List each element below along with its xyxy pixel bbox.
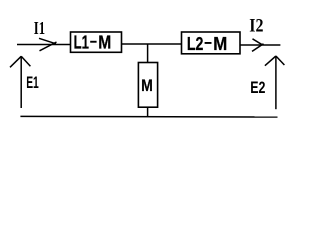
wire: between L1-M and L2-M (122, 43, 182, 45)
svg-text:I2: I2 (249, 15, 263, 36)
svg-text:M: M (213, 34, 227, 54)
svg-text:L2: L2 (187, 34, 204, 54)
svg-text:E2: E2 (250, 78, 265, 97)
wire: right lead out of L2-M (240, 44, 280, 46)
svg-text:M: M (98, 32, 111, 52)
node: E1 voltage arrow (up) (10, 56, 30, 108)
svg-text:I1: I1 (34, 18, 45, 38)
node: E2 voltage arrow (up) (265, 56, 285, 109)
node: I2 current arrowhead on right lead (252, 39, 264, 52)
wire: junction drop to M (147, 44, 149, 63)
node: I1 current arrowhead on left lead (39, 38, 57, 51)
svg-text:E1: E1 (26, 73, 39, 92)
wire: bottom rail (20, 115, 277, 118)
svg-text:L1: L1 (74, 32, 89, 52)
svg-text:M: M (141, 76, 153, 95)
inductor M (box) (138, 63, 157, 108)
inductor L2-M (box) (182, 32, 241, 54)
inductor L1-M (box) (71, 32, 122, 52)
wire: M box down to bottom rail (147, 107, 149, 117)
wire: left lead into L1-M (17, 44, 71, 46)
